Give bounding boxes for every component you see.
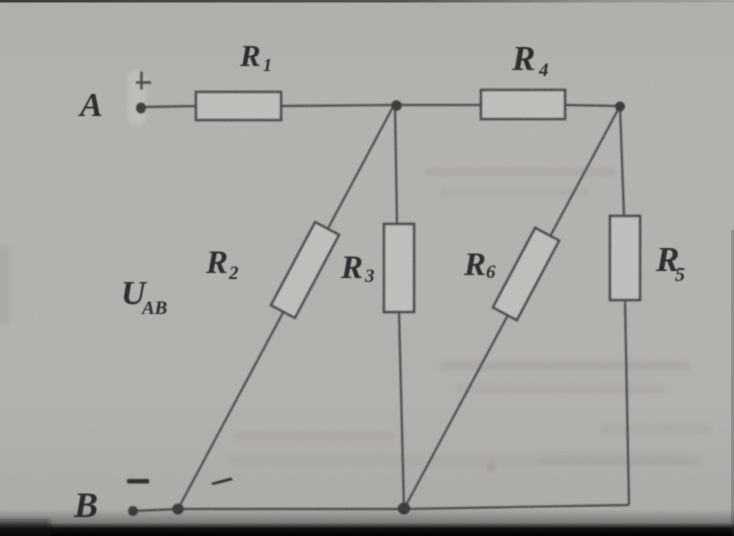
svg-text:R: R: [511, 39, 535, 78]
svg-text:6: 6: [486, 262, 496, 283]
svg-text:R: R: [463, 247, 486, 283]
svg-text:R: R: [340, 250, 363, 286]
svg-text:3: 3: [364, 266, 375, 287]
svg-text:R: R: [205, 245, 228, 281]
svg-text:A: A: [78, 87, 103, 124]
svg-text:2: 2: [228, 263, 239, 284]
svg-text:R: R: [239, 38, 261, 73]
svg-text:1: 1: [263, 55, 272, 75]
svg-text:5: 5: [675, 264, 685, 286]
svg-text:4: 4: [538, 60, 549, 81]
svg-text:AB: AB: [141, 298, 167, 319]
